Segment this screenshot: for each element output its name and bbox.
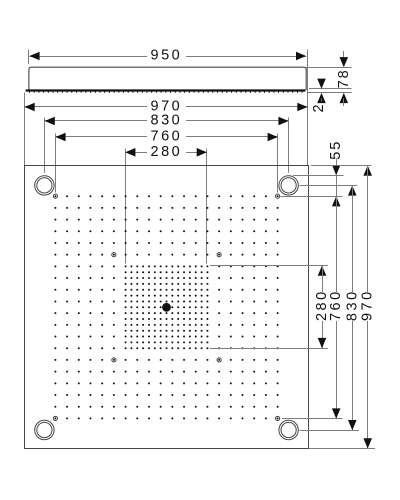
svg-text:78: 78 [336,68,352,88]
svg-text:970: 970 [360,289,376,321]
svg-text:55: 55 [328,140,344,160]
svg-text:2: 2 [311,104,327,112]
svg-text:760: 760 [151,129,183,145]
svg-text:830: 830 [151,113,183,129]
svg-text:760: 760 [328,289,344,321]
svg-text:280: 280 [151,144,183,160]
svg-text:950: 950 [151,48,183,64]
svg-text:830: 830 [344,289,360,321]
